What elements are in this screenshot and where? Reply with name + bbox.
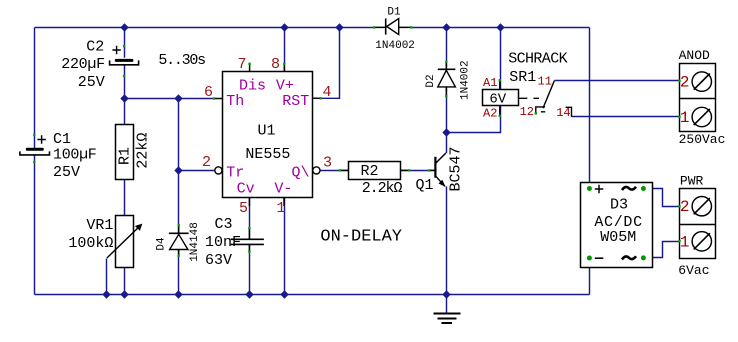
pin end marker D4 bottom [178, 254, 180, 256]
junction Th node [120, 94, 128, 102]
pin end marker coil top [499, 79, 501, 81]
svg-text:220µF: 220µF [61, 56, 105, 73]
pin end marker D2 top [445, 61, 447, 63]
D3 minus sign [595, 257, 604, 259]
svg-text:25V: 25V [78, 74, 105, 91]
wire +V drop to D3 plus [589, 28, 591, 189]
wire top rail left of D1 [35, 27, 375, 29]
svg-text:PWR: PWR [680, 173, 704, 188]
pin end marker Q1 base end [428, 169, 430, 171]
pin marker D3 ac2 [641, 255, 646, 260]
wire R1 to VR1 [124, 179, 126, 215]
wire collector node / D2 [446, 28, 448, 154]
U1 pin stubs [214, 64, 321, 207]
pin end marker C2 bottom [123, 75, 125, 77]
diode D1 [374, 19, 412, 35]
svg-text:1N4002: 1N4002 [375, 40, 415, 52]
wire pin 3 to R2 [320, 170, 348, 172]
wire pin 8 V+ to top rail [284, 28, 286, 73]
pin end marker D4 top [178, 224, 180, 226]
wire D3 ac1 to PWR 2 [643, 189, 679, 207]
pin end marker R2 left [339, 169, 341, 171]
SR1 contact 14 [566, 107, 572, 117]
svg-text:C1: C1 [53, 131, 71, 148]
VR1 wiper arrow [107, 224, 142, 258]
wire contact 11 to ANOD 2 [554, 80, 679, 82]
wire C2 top stub [124, 28, 126, 58]
pin end marker ANOD2 end [678, 80, 680, 82]
wire C3 to ground [249, 245, 251, 295]
pin marker D3 ac1 [641, 186, 646, 191]
capacitor C2 [110, 46, 139, 65]
SR1 coil stubs [499, 80, 501, 116]
svg-text:12: 12 [520, 105, 534, 119]
svg-text:Cv: Cv [237, 180, 255, 197]
wire relay coil A1 to +V [500, 28, 502, 90]
svg-text:2: 2 [680, 198, 690, 216]
potentiometer VR1 [116, 216, 134, 268]
svg-text:ON-DELAY: ON-DELAY [320, 228, 402, 247]
svg-text:1: 1 [680, 109, 690, 127]
pin end marker pin7 end [248, 63, 250, 65]
R2 stubs [340, 169, 410, 171]
svg-text:ANOD: ANOD [679, 48, 710, 63]
svg-text:BC547: BC547 [448, 146, 465, 191]
D3 ac1 tilde [622, 187, 636, 190]
junction VR1 gnd [120, 290, 128, 298]
pin end marker pin6 end [213, 97, 215, 99]
pin marker D3 minus [587, 256, 592, 261]
junction D2 top [442, 23, 450, 31]
svg-text:1: 1 [276, 200, 285, 217]
capacitor C3 [231, 228, 264, 252]
svg-text:W05M: W05M [600, 229, 636, 246]
pin end marker pin8 end [283, 63, 285, 65]
wire node Th to pin 6 [125, 98, 214, 100]
svg-text:14: 14 [556, 106, 570, 120]
pin end marker ANOD1 end [678, 116, 680, 118]
junction pin1 gnd [280, 290, 288, 298]
wire left rail lower [34, 155, 36, 294]
wire pin 1 to ground [284, 198, 286, 295]
junction pin8 top [280, 23, 288, 31]
svg-text:D3: D3 [610, 197, 628, 214]
pin end marker PWR2 end [678, 205, 680, 207]
svg-text:3: 3 [323, 154, 332, 171]
wire pin 4 RST to top rail [313, 28, 340, 99]
pin end marker C1 top [33, 134, 35, 136]
ground [434, 314, 461, 324]
pin end marker R2 right [408, 169, 410, 171]
transistor Q1 [429, 153, 446, 187]
capacitor C1 [20, 135, 50, 155]
pin end marker PWR1 end [678, 240, 680, 242]
svg-text:Q\: Q\ [291, 164, 309, 181]
svg-text:2: 2 [202, 154, 211, 171]
junction emitter gnd [442, 290, 450, 298]
SR1 contact blade [541, 81, 554, 112]
SR1 actuator dashed link [518, 97, 539, 99]
svg-text:2.2kΩ: 2.2kΩ [362, 180, 403, 197]
svg-text:Th: Th [226, 93, 244, 110]
U1 pin 2 bubble [215, 167, 222, 174]
svg-text:100µF: 100µF [53, 147, 97, 164]
svg-text:1N4002: 1N4002 [460, 60, 472, 100]
svg-text:1: 1 [680, 233, 690, 251]
wire D3 minus to ground rail [589, 258, 591, 294]
D3 ac2 tilde [622, 256, 636, 259]
svg-text:R1: R1 [117, 147, 134, 165]
svg-text:100kΩ: 100kΩ [68, 235, 113, 252]
svg-text:1N4148: 1N4148 [189, 222, 201, 262]
svg-text:VR1: VR1 [86, 217, 113, 234]
wire R2 to Q1 base [401, 170, 436, 172]
svg-text:Tr: Tr [226, 164, 244, 181]
svg-text:6: 6 [204, 84, 213, 101]
junction C2 top [120, 23, 128, 31]
wire pin 5 to C3 [249, 198, 251, 239]
svg-text:A2: A2 [483, 106, 497, 120]
pin end marker C2 top [123, 45, 125, 47]
wire Q1 emitter to ground [446, 186, 448, 294]
svg-text:SR1: SR1 [509, 69, 536, 86]
terminal block ANOD [680, 64, 716, 132]
svg-text:4: 4 [322, 84, 331, 101]
svg-text:6V: 6V [489, 92, 506, 108]
wire collector to relay coil A2 [447, 106, 501, 133]
IC U1 NE555 body [223, 72, 313, 198]
svg-text:A1: A1 [483, 76, 497, 90]
wire left rail upper [34, 28, 36, 149]
svg-text:C3: C3 [215, 216, 233, 233]
pin end marker contact 12 end [535, 112, 537, 114]
junction D4 gnd [174, 290, 182, 298]
pin end marker C3 bottom [248, 250, 250, 252]
wire node Tr to pin 2 [179, 170, 215, 172]
svg-text:6Vac: 6Vac [678, 263, 709, 278]
svg-text:R2: R2 [360, 163, 378, 180]
wire C2 to R1 [124, 65, 126, 125]
pin end marker D1 left [373, 26, 375, 28]
pin end marker C1 bottom [33, 161, 35, 163]
junction Th-D4 [174, 94, 182, 102]
svg-text:NE555: NE555 [245, 146, 290, 163]
svg-text:250Vac: 250Vac [679, 132, 726, 147]
pin end marker D2 bottom [445, 95, 447, 97]
resistor R2 [349, 162, 401, 180]
wire ground stub [446, 295, 448, 313]
svg-text:RST: RST [282, 93, 309, 110]
pin end marker pin4 end [320, 97, 322, 99]
terminal block PWR [680, 189, 716, 259]
pin end marker coil bottom [499, 115, 501, 117]
svg-text:22kΩ: 22kΩ [134, 133, 151, 169]
junction pin4 top [335, 23, 343, 31]
wire VR1 wiper to ground [106, 259, 108, 295]
svg-text:5: 5 [239, 200, 248, 217]
svg-text:8: 8 [271, 56, 280, 73]
resistor R1 [116, 125, 134, 180]
rectifier D3 body [581, 183, 653, 268]
relay SR1 coil [483, 90, 519, 106]
svg-text:63V: 63V [205, 252, 232, 269]
svg-text:Q1: Q1 [416, 177, 434, 194]
junction Tr-D4 [174, 166, 182, 174]
svg-text:D4: D4 [156, 237, 168, 251]
pin end marker C3 top [248, 227, 250, 229]
junction wiper gnd [102, 290, 110, 298]
svg-text:D1: D1 [387, 6, 401, 18]
svg-text:5..30s: 5..30s [158, 52, 205, 69]
svg-text:V-: V- [274, 180, 292, 197]
pin end marker D1 right [410, 26, 412, 28]
diode D2 [438, 62, 456, 97]
SR1 contact 12 [536, 107, 545, 113]
D3 plus sign [595, 185, 604, 194]
wire top rail right of D1 [412, 27, 590, 29]
pin marker D3 plus [587, 186, 592, 191]
wire Th node down to D4 [178, 99, 180, 234]
wire D3 ac2 to PWR 1 [643, 242, 679, 258]
diode D4 [169, 225, 189, 256]
svg-text:11: 11 [538, 75, 552, 89]
svg-text:2: 2 [680, 74, 690, 92]
junction C3 gnd [245, 290, 253, 298]
svg-text:C2: C2 [86, 38, 104, 55]
wire D4 anode to ground [178, 250, 180, 295]
svg-text:D2: D2 [425, 74, 437, 87]
svg-text:U1: U1 [257, 123, 275, 140]
svg-text:10nF: 10nF [205, 234, 241, 251]
wire VR1 bottom to ground [124, 268, 126, 295]
junction collector node [442, 128, 450, 136]
svg-text:25V: 25V [53, 164, 80, 181]
U1 pin 3 bubble [313, 167, 320, 174]
wire contact 14 to ANOD 1 [572, 116, 680, 118]
svg-text:SCHRACK: SCHRACK [508, 51, 567, 68]
wire ground rail [35, 294, 590, 296]
junction coil top [496, 23, 504, 31]
svg-text:7: 7 [237, 56, 246, 73]
